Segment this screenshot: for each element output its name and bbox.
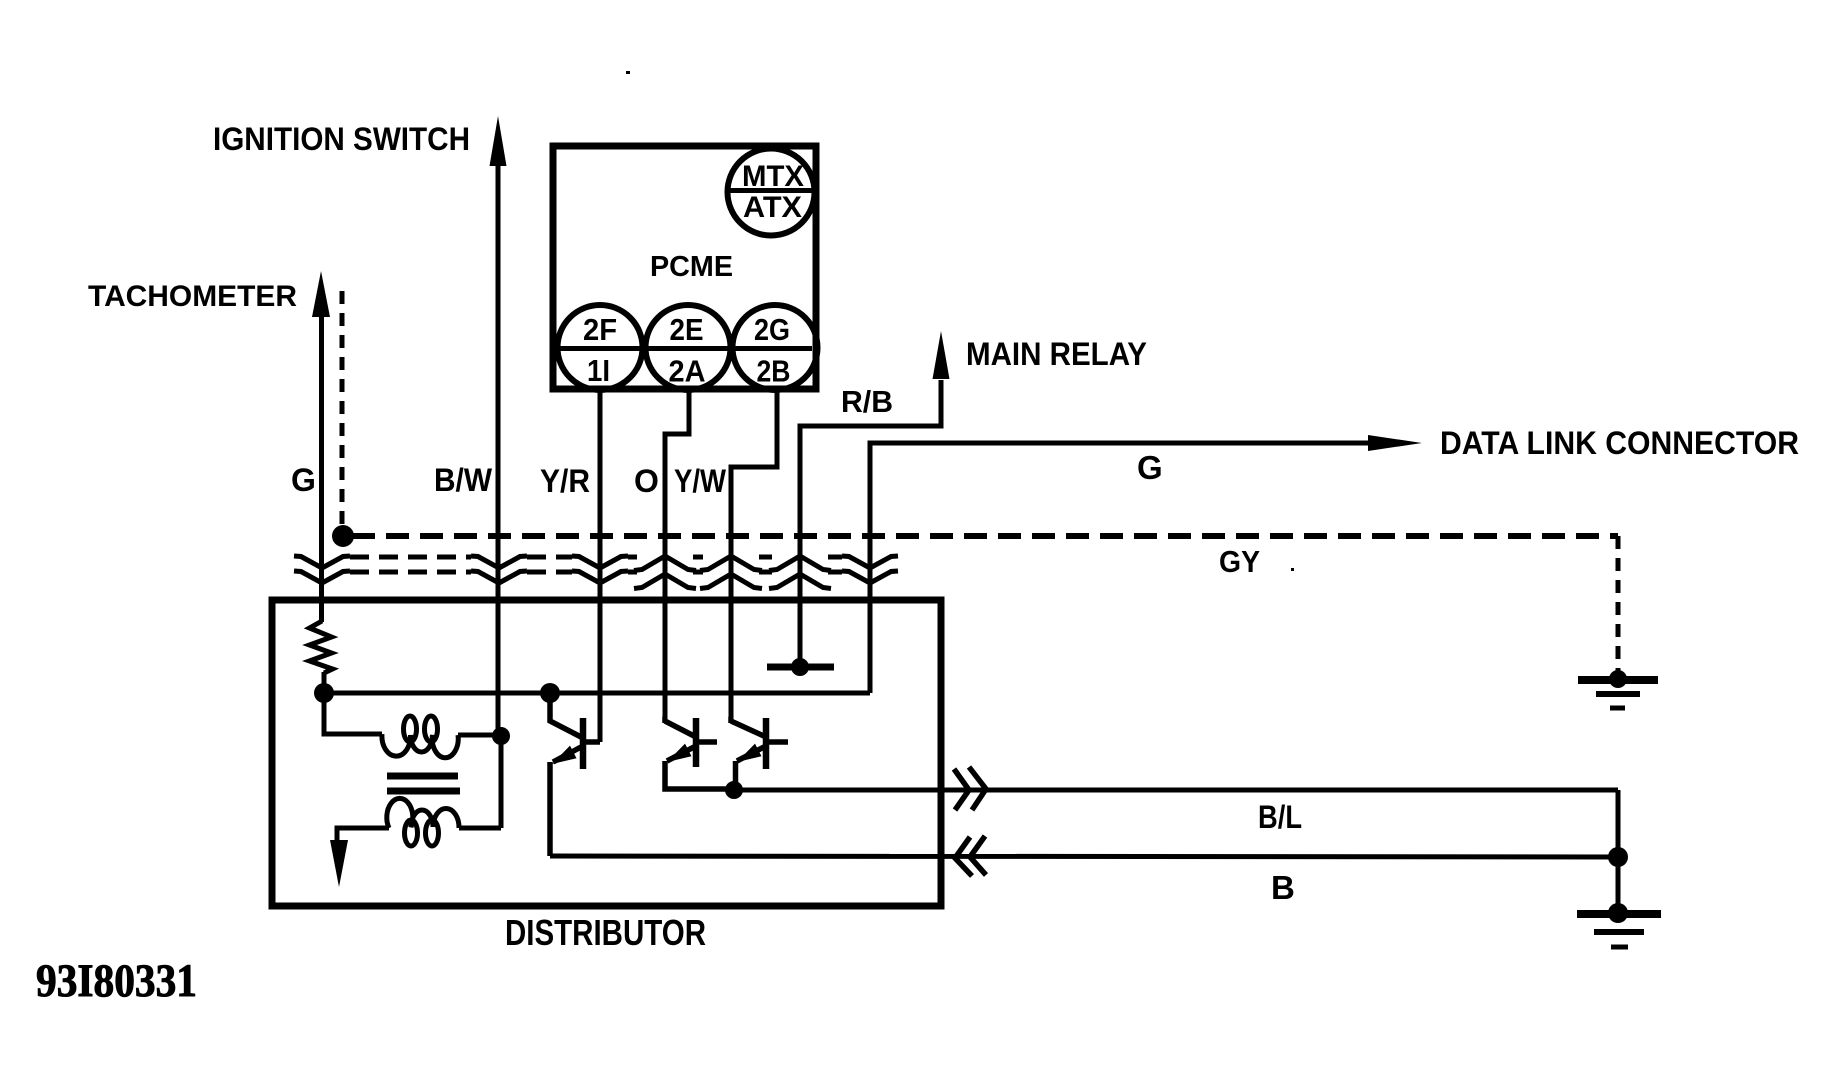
wire G vertical (tachometer) — [319, 313, 324, 622]
wire bus horizontal — [324, 691, 870, 696]
arrow to tachometer — [312, 271, 330, 317]
resistor (ballast) — [310, 621, 333, 673]
PCME box — [553, 146, 816, 389]
transistor Q1 — [550, 693, 600, 856]
ignition coil secondary — [337, 736, 501, 846]
svg-text:GY: GY — [1219, 544, 1260, 579]
svg-text:TACHOMETER: TACHOMETER — [88, 280, 297, 313]
connector chevrons on wire R/B (inverted) — [769, 556, 831, 589]
svg-text:2B: 2B — [757, 354, 791, 389]
connector circle MTX/ATX — [728, 149, 815, 236]
wire GY dashed horizontal — [352, 533, 1618, 539]
connector circle 2E/2A — [646, 305, 731, 390]
connector circle 2G/2B — [733, 305, 818, 390]
svg-text:93I80331: 93I80331 — [36, 955, 197, 1007]
svg-text:IGNITION SWITCH: IGNITION SWITCH — [213, 121, 470, 157]
ground symbol right-bottom — [1577, 903, 1661, 947]
svg-text:B/L: B/L — [1258, 799, 1302, 835]
transistor Q3 — [731, 718, 788, 790]
connector chevrons on wire G data link — [842, 556, 898, 583]
transistor Q2 — [665, 718, 733, 789]
wire B/L down to B — [1616, 790, 1621, 857]
svg-text:MTX: MTX — [742, 160, 804, 193]
ground symbol GY shield — [1578, 670, 1658, 708]
arrow to ignition switch — [490, 116, 507, 166]
svg-text:2F: 2F — [583, 312, 617, 347]
wire G to data link connector — [870, 443, 1372, 693]
ignition coil core — [387, 776, 460, 791]
svg-text:G: G — [1137, 449, 1163, 486]
node dot bus at transistor 1 — [540, 683, 560, 703]
pin divider line — [557, 346, 812, 351]
wire shield dashed row lower — [350, 570, 842, 575]
wire B/W vertical — [496, 162, 501, 736]
wire Y/R from pin 1I — [598, 392, 603, 742]
arrow spark output (down) — [330, 840, 348, 887]
svg-text:2G: 2G — [754, 312, 790, 347]
node dot emitters junction — [725, 781, 743, 799]
svg-text:MAIN RELAY: MAIN RELAY — [966, 336, 1147, 372]
svg-text:O: O — [634, 463, 659, 499]
speck artifacts — [626, 71, 630, 74]
connector chevrons on wire O (inverted) — [634, 556, 696, 589]
wire dashed G (tach shield drop) — [340, 291, 345, 532]
ignition coil primary — [324, 693, 501, 758]
svg-text:DISTRIBUTOR: DISTRIBUTOR — [505, 912, 706, 953]
svg-text:2E: 2E — [670, 312, 704, 347]
arrow to data link connector — [1368, 435, 1422, 451]
connector circle 2F/1I — [558, 305, 643, 390]
wire shield dashed row upper — [350, 555, 842, 560]
connector chevrons on wire Y/W (inverted) — [700, 556, 762, 589]
connector chevrons on wire Y/R — [572, 556, 628, 583]
svg-text:R/B: R/B — [841, 384, 893, 419]
connector chevrons on wire B/W — [471, 556, 527, 583]
svg-text:B: B — [1271, 869, 1295, 906]
svg-text:DATA LINK CONNECTOR: DATA LINK CONNECTOR — [1440, 425, 1799, 461]
wire GY dashed drop to ground — [1616, 536, 1621, 675]
svg-text:2A: 2A — [669, 354, 706, 389]
wire B/L — [734, 788, 1618, 793]
node dot bus left — [314, 683, 334, 703]
wire O from pin 2A — [665, 392, 689, 723]
svg-text:PCME: PCME — [650, 251, 733, 283]
chevrons B (left) — [955, 836, 986, 876]
svg-text:B/W: B/W — [434, 462, 493, 498]
node dot B junction — [1608, 847, 1628, 867]
node dot GY start — [332, 525, 354, 547]
node dot coil/B W — [492, 727, 510, 745]
svg-text:Y/W: Y/W — [674, 463, 727, 499]
chevrons B/L (right) — [954, 767, 986, 810]
connector chevrons on wire G — [294, 556, 350, 583]
svg-text:ATX: ATX — [743, 191, 802, 224]
node dot pickup R/B with bar — [767, 658, 834, 676]
svg-text:Y/R: Y/R — [540, 463, 590, 499]
wire B — [550, 856, 1618, 857]
wire Y/W from pin 2B — [731, 392, 777, 723]
arrow to main relay — [933, 331, 950, 379]
wire resistor to bus dot — [322, 672, 327, 693]
wire B to ground — [1616, 857, 1621, 913]
svg-text:1I: 1I — [587, 353, 610, 388]
wire R/B to main relay — [800, 380, 941, 667]
distributor box — [272, 600, 941, 906]
svg-text:G: G — [291, 462, 316, 498]
